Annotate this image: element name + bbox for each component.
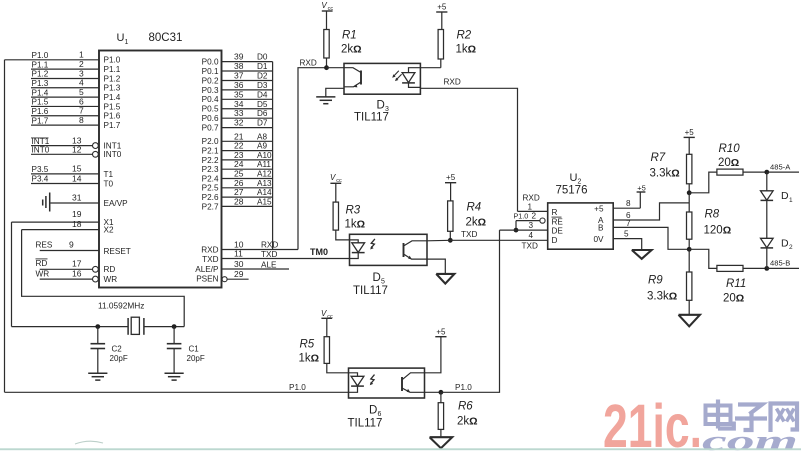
resistor R2 1k	[420, 30, 476, 68]
svg-text:RESET: RESET	[104, 247, 131, 256]
watermark Chinese characters dian-zi-wang (blue)	[706, 400, 798, 433]
svg-text:11: 11	[234, 249, 243, 259]
svg-text:80C31: 80C31	[149, 32, 183, 44]
wire P1.0 up to U2 RE/DE	[441, 230, 500, 392]
wire X1 to crystal	[11, 222, 13, 327]
U1 pin 29 PSEN stub	[196, 269, 248, 284]
svg-text:8: 8	[79, 115, 84, 125]
svg-text:V: V	[330, 173, 336, 182]
node RE/DE tie	[514, 228, 519, 233]
U1 pin 28 P2.7 / A15	[202, 196, 273, 211]
node crystal-right	[172, 324, 177, 329]
faint pen squiggle bottom-left	[75, 441, 103, 444]
svg-text:1kΩ: 1kΩ	[456, 44, 477, 56]
svg-text:11.0592MHz: 11.0592MHz	[98, 301, 144, 311]
U1 pin 22 P2.1 / A9	[202, 141, 273, 156]
svg-text:D7: D7	[257, 119, 268, 128]
svg-text:+5: +5	[446, 173, 456, 182]
svg-text:P1.2: P1.2	[32, 70, 49, 79]
U2 pin 5 0V	[593, 230, 641, 250]
resistor R9 3.3k	[647, 249, 692, 314]
capacitor C2 20pF	[91, 327, 128, 374]
svg-text:5: 5	[624, 230, 629, 239]
ground U2 0V	[632, 250, 652, 259]
svg-text:V: V	[321, 1, 327, 10]
U1 pin 6 P1.5	[31, 96, 121, 111]
svg-text:28: 28	[234, 196, 244, 206]
svg-text:20pF: 20pF	[110, 354, 128, 363]
U2 pin 4 D input	[522, 231, 558, 251]
svg-text:P1.0: P1.0	[289, 383, 306, 392]
svg-text:TXD: TXD	[261, 250, 277, 259]
svg-text:X2: X2	[104, 226, 114, 235]
svg-text:D3: D3	[257, 81, 268, 90]
svg-text:D: D	[781, 238, 789, 250]
svg-text:P2.0: P2.0	[202, 137, 219, 146]
ground D5 emitter	[436, 274, 454, 284]
svg-text:D: D	[552, 236, 558, 245]
svg-text:17: 17	[72, 259, 82, 269]
U2 pin 1 R input	[518, 194, 558, 217]
svg-text:P1.0: P1.0	[514, 211, 529, 220]
svg-text:T0: T0	[104, 179, 114, 188]
U1 pin 18 X2	[22, 219, 114, 234]
svg-text:P0.4: P0.4	[202, 95, 219, 104]
svg-text:P1.4: P1.4	[32, 88, 49, 97]
svg-text:D: D	[781, 190, 789, 202]
U2 pin 6 A output	[598, 203, 689, 225]
+5 supply above R7	[684, 128, 695, 155]
svg-text:1kΩ: 1kΩ	[345, 219, 366, 231]
svg-text:+5: +5	[436, 328, 446, 337]
svg-text:3: 3	[529, 221, 534, 230]
svg-text:P2.3: P2.3	[202, 165, 219, 174]
svg-text:2kΩ: 2kΩ	[466, 217, 487, 229]
U1 pin 23 P2.2 / A10	[202, 150, 273, 165]
svg-text:1: 1	[528, 202, 533, 211]
svg-text:C2: C2	[112, 345, 123, 354]
svg-text:cc: cc	[328, 6, 334, 12]
svg-text:P1.0: P1.0	[104, 56, 121, 65]
svg-text:D: D	[369, 405, 377, 417]
U1 pin 14 T0 / P3.4	[31, 173, 114, 188]
wire P1.0 into D6 LED	[5, 383, 349, 392]
D6 LED (left side)	[349, 373, 364, 393]
U1 pin 25 P2.4 / A12	[202, 169, 273, 184]
svg-text:21ic.: 21ic.	[603, 392, 702, 452]
svg-text:TIL117: TIL117	[348, 418, 383, 430]
U1 pin 1 P1.0	[5, 50, 121, 65]
svg-text:T1: T1	[104, 170, 114, 179]
svg-text:PSEN: PSEN	[196, 275, 218, 284]
U1 pin 11 TXD / TM0 wire to D5	[202, 247, 349, 264]
svg-text:P3.4: P3.4	[32, 175, 49, 184]
svg-text:RXD: RXD	[300, 59, 317, 68]
svg-text:P0.0: P0.0	[202, 58, 219, 67]
U1 pin 38 P0.1 / D1	[202, 61, 273, 76]
svg-text:WR: WR	[104, 275, 118, 284]
svg-text:TXD: TXD	[522, 241, 538, 250]
data/address bus vertical	[272, 62, 274, 250]
U1 pin 12 INT0	[31, 144, 122, 159]
svg-text:+5: +5	[637, 183, 646, 192]
svg-text:TM0: TM0	[310, 247, 328, 257]
svg-text:P2.1: P2.1	[202, 147, 219, 156]
svg-text:U: U	[570, 172, 578, 184]
svg-text:20Ω: 20Ω	[718, 157, 739, 169]
svg-text:P1.1: P1.1	[104, 65, 121, 74]
IC U1 80C31 microcontroller body	[99, 32, 222, 288]
D3 photo-transistor (left, output to RXD)	[344, 68, 361, 88]
svg-text:R9: R9	[648, 275, 663, 287]
svg-text:P1.6: P1.6	[104, 112, 121, 121]
optocoupler D5 TIL117 body	[350, 234, 428, 297]
U1 pin 17 RD	[36, 259, 116, 275]
node A / R7-R8 junction	[687, 190, 692, 195]
U1 pin 5 P1.4	[31, 87, 121, 102]
resistor R3 1k	[333, 202, 365, 240]
resistor R5 1k	[299, 337, 349, 373]
svg-text:com: com	[702, 426, 798, 452]
svg-text:RD: RD	[104, 265, 116, 274]
ground under C1	[165, 373, 184, 380]
svg-text:D: D	[373, 272, 381, 284]
svg-text:1kΩ: 1kΩ	[299, 353, 320, 365]
svg-text:A10: A10	[257, 151, 272, 160]
watermark com (blue italic)	[702, 426, 798, 452]
U1 pin 32 P0.7 / D7	[202, 118, 273, 133]
U1 pin 9 RESET	[36, 240, 131, 256]
svg-text:P1.6: P1.6	[32, 107, 49, 116]
U1 pin 27 P2.6 / A14	[202, 187, 273, 202]
svg-text:R5: R5	[300, 339, 315, 351]
svg-text:A11: A11	[257, 160, 271, 169]
svg-text:P0.3: P0.3	[202, 86, 219, 95]
node 485-A	[764, 162, 799, 174]
svg-text:15: 15	[72, 164, 82, 174]
svg-text:D0: D0	[257, 53, 268, 62]
Vcc supply above R5	[321, 309, 333, 337]
21ic watermark (red part)	[603, 392, 702, 452]
crystal Y1 11.0592MHz	[12, 301, 185, 335]
svg-text:30: 30	[234, 259, 244, 269]
resistor R6 2k	[438, 392, 477, 437]
svg-text:D2: D2	[257, 71, 268, 80]
svg-text:75176: 75176	[556, 185, 588, 197]
svg-text:TXD: TXD	[461, 230, 477, 239]
U1 pin 8 P1.7	[31, 115, 121, 130]
+5 supply for D6 collector	[425, 328, 447, 373]
svg-text:A14: A14	[257, 188, 272, 197]
U1 pin 33 P0.6 / D6	[202, 108, 273, 123]
node 485-B	[764, 259, 799, 271]
svg-text:B: B	[598, 224, 604, 233]
svg-text:RE: RE	[552, 217, 564, 226]
ground under R9	[679, 315, 700, 327]
svg-text:3.3kΩ: 3.3kΩ	[647, 291, 677, 303]
svg-text:U: U	[117, 32, 125, 44]
capacitor C1 20pF	[167, 327, 205, 374]
svg-text:P0.1: P0.1	[202, 67, 219, 76]
svg-text:12: 12	[72, 144, 82, 154]
svg-text:32: 32	[234, 118, 244, 128]
svg-text:D5: D5	[257, 100, 268, 109]
page bottom rule	[0, 448, 801, 450]
svg-text:P1.3: P1.3	[104, 84, 121, 93]
resistor R1 2k	[324, 30, 362, 68]
svg-text:P1.4: P1.4	[104, 93, 121, 102]
D5 light bolt arrow	[370, 239, 375, 250]
svg-text:A9: A9	[257, 142, 267, 151]
svg-text:29: 29	[234, 269, 244, 279]
U1 pin 31 EA/VP with tie symbol	[43, 192, 128, 211]
D3 LED (right side)	[402, 68, 420, 88]
svg-text:P1.3: P1.3	[32, 79, 49, 88]
node D6 emitter / R6 junction	[439, 390, 444, 395]
node R1/RXD junction	[324, 65, 329, 70]
resistor R4 2k	[448, 201, 486, 240]
D5 LED (left side)	[350, 240, 365, 259]
U1 pin 4 P1.3	[31, 78, 121, 93]
U1 pin 16 WR	[36, 268, 118, 284]
svg-text:P0.2: P0.2	[202, 76, 219, 85]
svg-text:EA/VP: EA/VP	[104, 199, 129, 208]
svg-text:P1.1: P1.1	[32, 60, 49, 69]
svg-text:P2.7: P2.7	[202, 202, 219, 211]
svg-text:P1.7: P1.7	[32, 116, 49, 125]
svg-text:R11: R11	[726, 278, 746, 290]
svg-text:A12: A12	[257, 170, 272, 179]
U1 pin 19 X1	[12, 209, 114, 227]
svg-text:20pF: 20pF	[187, 354, 205, 363]
svg-text:0V: 0V	[593, 235, 604, 244]
svg-text:RD: RD	[36, 259, 48, 268]
svg-text:19: 19	[72, 209, 82, 219]
svg-text:485-A: 485-A	[770, 162, 791, 171]
svg-text:9: 9	[69, 240, 74, 250]
resistor R10 20 ohm to 485-A	[689, 143, 767, 193]
U2 pin 3 DE	[500, 221, 564, 236]
resistor R8 120	[687, 193, 732, 250]
wire D3 emitter to ground	[326, 88, 344, 96]
U1 pin 34 P0.5 / D5	[202, 99, 273, 114]
svg-text:4: 4	[529, 231, 534, 240]
svg-text:A15: A15	[257, 197, 272, 206]
svg-text:ALE/P: ALE/P	[195, 265, 219, 274]
svg-text:R2: R2	[457, 30, 472, 42]
U1 pin 36 P0.3 / D3	[202, 80, 273, 95]
U1 pin 15 T1 / P3.5	[31, 164, 114, 179]
svg-text:8: 8	[626, 199, 631, 208]
U2 pin 8 +5	[594, 183, 646, 213]
ground D3 emitter	[316, 97, 335, 104]
svg-text:INT1: INT1	[32, 137, 50, 146]
wire D5 emitter to ground	[427, 259, 445, 274]
svg-text:P1.7: P1.7	[104, 121, 121, 130]
svg-text:P2.5: P2.5	[202, 184, 219, 193]
optocoupler D3 TIL117 body	[344, 63, 420, 123]
svg-text:INT1: INT1	[104, 142, 122, 151]
D6 light bolt arrow	[370, 375, 375, 386]
+5 supply above R2	[436, 3, 447, 30]
node B / R8-R9 junction	[687, 247, 692, 252]
svg-text:1: 1	[125, 39, 129, 46]
ground under C2	[88, 373, 107, 380]
svg-text:P2.4: P2.4	[202, 174, 219, 183]
svg-text:7: 7	[626, 219, 631, 228]
svg-text:cc: cc	[336, 178, 342, 184]
svg-text:2: 2	[789, 244, 793, 251]
wire P1.0 long feedback run (left edge down to D6)	[4, 60, 6, 393]
resistor R11 20 ohm to 485-B	[689, 249, 767, 304]
diode D1 protection	[761, 172, 794, 238]
U1 pin 3 P1.2	[31, 68, 121, 83]
U1 pin 13 INT1	[31, 136, 122, 151]
diode D2 protection	[761, 238, 794, 269]
U1 pin 39 P0.0 / D0	[202, 52, 273, 67]
wire node to D3	[327, 67, 345, 69]
svg-text:P1.5: P1.5	[104, 102, 121, 111]
svg-text:P1.0: P1.0	[32, 51, 49, 60]
wire D6 emitter to P1.0 node	[425, 391, 441, 393]
wire RXD from D3 LED to U2 R pin	[420, 78, 517, 212]
wire TXD node to U2 D pin	[450, 230, 547, 240]
svg-text:R: R	[552, 208, 558, 217]
U1 pin 24 P2.3 / A11	[202, 159, 273, 174]
svg-text:R4: R4	[467, 202, 482, 214]
D6 photo-transistor (right side)	[402, 373, 425, 393]
optocoupler D6 TIL117 body	[348, 368, 425, 429]
svg-text:D1: D1	[257, 62, 268, 71]
svg-text:2: 2	[532, 211, 537, 220]
svg-text:RXD: RXD	[444, 78, 461, 87]
svg-text:A13: A13	[257, 179, 272, 188]
+5 supply above R4	[445, 173, 456, 201]
svg-text:cc: cc	[327, 314, 333, 320]
U1 pin 35 P0.4 / D4	[202, 89, 273, 104]
svg-text:ALE: ALE	[261, 260, 277, 269]
D3 light emission arrows	[392, 71, 401, 81]
node crystal-left	[95, 324, 100, 329]
Vcc supply above R3	[330, 173, 342, 202]
svg-text:RXD: RXD	[261, 240, 278, 249]
svg-text:R10: R10	[719, 143, 741, 155]
svg-text:R7: R7	[651, 152, 666, 164]
node R4/TXD/collector junction	[448, 238, 453, 243]
svg-text:P1.0: P1.0	[455, 383, 472, 392]
svg-text:P2.2: P2.2	[202, 156, 219, 165]
svg-text:P0.6: P0.6	[202, 114, 219, 123]
svg-text:P1.5: P1.5	[32, 98, 49, 107]
U1 pin 30 ALE stub	[195, 259, 289, 274]
svg-text:+5: +5	[685, 128, 695, 137]
svg-text:18: 18	[72, 219, 82, 229]
U1 pin 2 P1.1	[31, 59, 121, 74]
svg-text:31: 31	[72, 192, 82, 202]
svg-text:P0.5: P0.5	[202, 105, 219, 114]
svg-text:16: 16	[72, 268, 82, 278]
svg-text:C1: C1	[189, 345, 200, 354]
svg-text:TXD: TXD	[202, 255, 218, 264]
resistor R7 3.3k	[650, 152, 692, 193]
svg-text:D: D	[377, 100, 385, 112]
svg-text:+5: +5	[594, 204, 604, 213]
svg-text:2kΩ: 2kΩ	[457, 416, 478, 428]
svg-text:RXD: RXD	[201, 245, 218, 254]
svg-text:R3: R3	[346, 205, 361, 217]
svg-text:RES: RES	[36, 241, 53, 250]
svg-text:120Ω: 120Ω	[704, 225, 732, 237]
svg-text:TIL117: TIL117	[354, 112, 389, 124]
svg-text:V: V	[321, 309, 327, 318]
svg-text:R6: R6	[458, 401, 473, 413]
D5 photo-transistor (right side)	[404, 241, 428, 259]
IC U2 75176 RS-485 transceiver body	[548, 172, 614, 249]
svg-text:+5: +5	[437, 3, 447, 12]
svg-text:20Ω: 20Ω	[723, 293, 744, 305]
U1 pin 7 P1.6	[31, 106, 121, 121]
svg-text:2kΩ: 2kΩ	[341, 44, 362, 56]
svg-text:R8: R8	[705, 209, 720, 221]
svg-text:A8: A8	[257, 132, 267, 141]
svg-text:485-B: 485-B	[770, 259, 790, 268]
U2 pin 7 B output	[598, 219, 689, 250]
ground under R6	[430, 437, 453, 448]
Vcc supply above R1	[321, 1, 333, 30]
svg-text:DE: DE	[552, 227, 564, 236]
svg-text:P2.6: P2.6	[202, 193, 219, 202]
wire RXD from pin10 up to R1 node	[298, 59, 327, 250]
U1 pin 10 RXD	[201, 239, 298, 254]
svg-text:D4: D4	[257, 90, 268, 99]
U1 pin 37 P0.2 / D2	[202, 70, 273, 85]
wire collector to node	[427, 239, 450, 242]
svg-text:P1.2: P1.2	[104, 74, 121, 83]
svg-text:TIL117: TIL117	[353, 285, 388, 297]
svg-text:INT0: INT0	[32, 146, 50, 155]
svg-text:INT0: INT0	[104, 150, 122, 159]
svg-text:14: 14	[72, 173, 82, 183]
svg-text:1: 1	[789, 197, 793, 204]
U1 pin 26 P2.5 / A13	[202, 178, 273, 193]
svg-text:R1: R1	[342, 30, 357, 42]
U1 pin 21 P2.0 / A8	[202, 131, 273, 146]
svg-text:D6: D6	[257, 109, 268, 118]
U2 pin 2 RE (bubble)	[514, 211, 564, 230]
svg-text:WR: WR	[36, 269, 50, 278]
svg-text:P3.5: P3.5	[32, 165, 49, 174]
svg-text:3.3kΩ: 3.3kΩ	[650, 168, 680, 180]
svg-text:P0.7: P0.7	[202, 124, 219, 133]
wire X2 to crystal	[22, 230, 185, 327]
